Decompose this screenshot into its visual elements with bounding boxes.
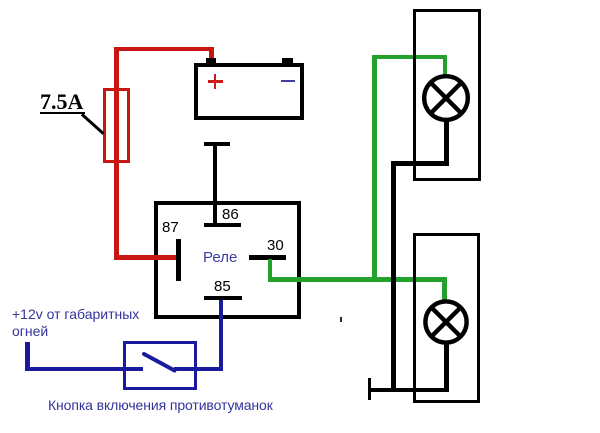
wire black pin 86 lead vertical [213, 142, 217, 227]
wire black from HL1 bulb down [444, 120, 449, 166]
switch S1 box [123, 341, 197, 390]
pin label 85 [214, 278, 231, 295]
relay label Реле [203, 249, 237, 266]
pin label 30 [267, 237, 284, 254]
wire black HL1 horizontal left [391, 161, 449, 166]
terminal T-bar above relay (pin 86 lead) [204, 142, 230, 146]
wire blue left stub vertical [25, 342, 30, 371]
pin 85 bar [204, 296, 242, 301]
lamp HL2 bulb [423, 299, 469, 345]
battery plus sign [208, 80, 223, 83]
lamp HL1 housing (top) [413, 9, 482, 181]
battery GB1 body [194, 63, 304, 120]
wire red vertical through fuse [114, 47, 119, 260]
wire green horizontal to bottom lamp [268, 277, 448, 282]
fuse F1 7.5A [103, 88, 130, 163]
wire blue down from pin 85 [219, 300, 223, 372]
wire blue horizontal left of switch [25, 367, 143, 371]
wire green into bottom lamp [442, 277, 447, 300]
switch S1 lever [138, 346, 183, 376]
wire green top horizontal to top lamp [372, 55, 447, 60]
wire red horizontal to relay pin 87 [114, 255, 177, 260]
wire blue horizontal right of switch [174, 367, 223, 371]
lamp HL1 bulb [420, 72, 472, 124]
pin 86 bar [204, 223, 241, 227]
pin 30 bar [249, 255, 286, 260]
wire red top horizontal (fuse to battery +) [114, 47, 214, 52]
ground bar [368, 378, 372, 401]
stray tick mark [340, 317, 342, 322]
wire green vertical branch up [372, 55, 377, 282]
battery - terminal post [282, 58, 293, 65]
battery minus sign [281, 80, 295, 83]
label Кнопка включения противотуманок [48, 397, 273, 413]
pin label 86 [222, 206, 239, 223]
lamp HL2 housing (bottom) [413, 233, 480, 403]
battery + terminal post [206, 58, 217, 65]
pin 87 bar [176, 239, 181, 281]
wire black ground horizontal [369, 388, 449, 393]
label +12v от габаритных огней [12, 306, 152, 340]
wire black from HL2 bulb down [444, 343, 449, 393]
wire green into top lamp [443, 55, 448, 76]
relay K1 box [154, 201, 301, 319]
label 7.5A [40, 89, 83, 115]
wire green down from pin 30 [268, 259, 273, 282]
wire black HL1 ground vertical [391, 161, 396, 392]
pin label 87 [162, 219, 179, 236]
wire red drop to battery + terminal [209, 47, 214, 59]
pointer line from label to fuse [78, 111, 108, 137]
